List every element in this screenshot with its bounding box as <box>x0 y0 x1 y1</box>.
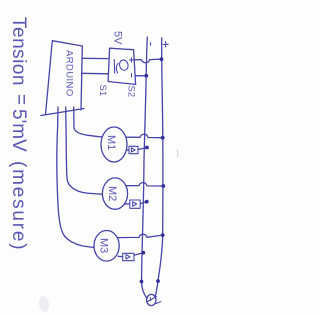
battery source G <box>147 294 161 305</box>
wire Arduino pin to M1 control <box>74 107 103 137</box>
node junction D2 minus <box>145 200 149 204</box>
wire Arduino to U1 input 1 <box>83 57 108 59</box>
wire M3 to positive rail with hop <box>118 234 161 237</box>
Arduino board A1 <box>41 41 84 116</box>
svg-text:=: = <box>10 94 31 105</box>
driver D3 <box>123 253 134 260</box>
node junction D3 minus <box>141 251 145 255</box>
svg-text:M2: M2 <box>106 186 118 201</box>
wire Arduino pin to M3 control <box>57 107 94 247</box>
wire positive rail <box>155 38 163 296</box>
svg-text:5V: 5V <box>112 31 124 45</box>
node junction minus rail <box>144 74 148 78</box>
pin - label U1 <box>130 74 132 78</box>
driver D1 <box>129 146 138 153</box>
wire M1 to positive rail with hop <box>126 134 161 137</box>
wire D1 to M1 <box>126 149 129 151</box>
svg-text:S1: S1 <box>97 85 108 97</box>
node junction M1 plus <box>161 136 165 140</box>
wire D2 to M2 <box>125 203 130 205</box>
wire Arduino to U1 input 2 <box>82 72 107 75</box>
svg-text:M3: M3 <box>98 238 110 253</box>
driver D2 <box>130 200 140 208</box>
node junction plus rail <box>160 57 164 61</box>
node junction M2 plus <box>161 184 165 188</box>
motor M3 <box>94 231 119 262</box>
pin + label U1 <box>129 58 133 62</box>
wire D1 to negative rail <box>138 148 145 150</box>
svg-text:5'mV: 5'mV <box>8 109 29 152</box>
node terminal plus <box>156 279 160 283</box>
wire D3 to M3 <box>118 255 123 257</box>
wire negative rail <box>142 37 148 298</box>
wire D3 to negative rail <box>134 253 141 255</box>
wire Arduino pin to M2 control <box>66 107 103 194</box>
node junction D1 minus <box>145 146 149 150</box>
wire M2 to positive rail with hop <box>126 183 161 186</box>
svg-text:S2: S2 <box>126 86 137 98</box>
node - label <box>150 43 152 46</box>
svg-text:ARDUINO: ARDUINO <box>64 50 75 97</box>
node junction M3 plus <box>161 233 165 237</box>
wire D2 to negative rail <box>140 202 145 204</box>
paper smudge <box>38 295 50 312</box>
motor M1 <box>101 127 127 162</box>
node terminal minus <box>140 280 144 284</box>
wire U1 plus output to positive rail with hop <box>134 59 160 63</box>
wire U1 minus output to negative rail <box>135 75 145 77</box>
svg-text:(mesure): (mesure) <box>8 161 29 251</box>
svg-text:M1: M1 <box>105 135 117 150</box>
svg-text:Tension: Tension <box>8 17 29 86</box>
node + label <box>163 42 168 47</box>
galvanometer symbol inside U1 <box>118 59 129 71</box>
stray mark <box>177 150 180 157</box>
annotation tension value <box>8 17 31 251</box>
motor M2 <box>102 178 127 209</box>
amplifier U1 <box>108 48 136 84</box>
